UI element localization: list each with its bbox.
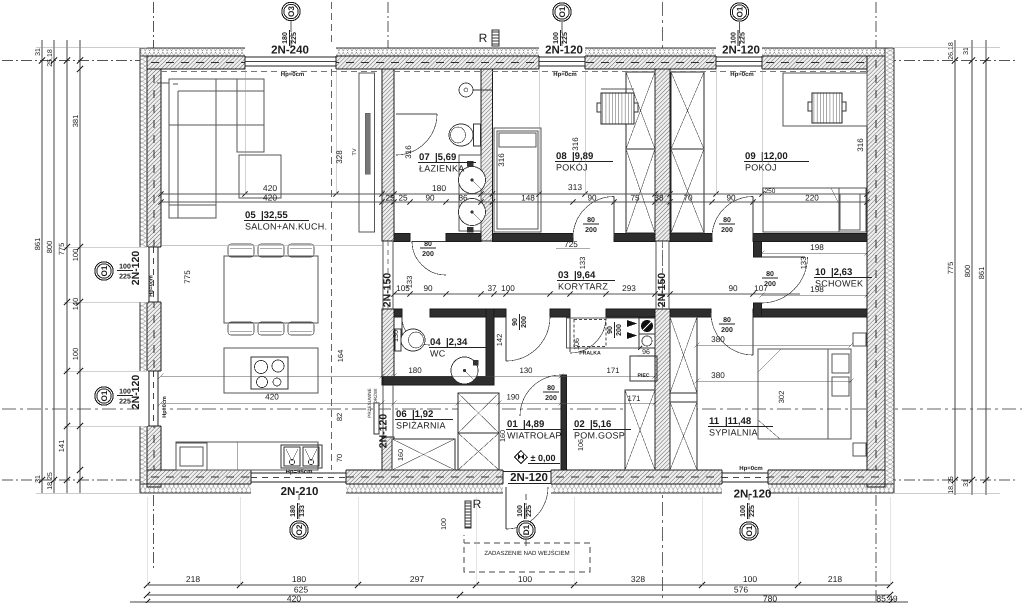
sypialnia dim lines 380 <box>697 344 851 346</box>
corridor bottom wall segment a <box>394 309 402 317</box>
svg-text:316: 316 <box>856 138 865 152</box>
exterior wall top <box>147 56 885 69</box>
opening 2N-150 salon to corridor <box>382 241 384 309</box>
wall wiatrolap pomgosp <box>561 375 567 470</box>
window 2N-120 left lower <box>139 371 162 426</box>
svg-text:293: 293 <box>622 284 636 293</box>
svg-text:31: 31 <box>35 48 42 56</box>
svg-text:297: 297 <box>410 574 424 584</box>
counter pomgosp <box>567 318 656 348</box>
svg-text:171: 171 <box>606 366 619 375</box>
svg-text:02: 02 <box>574 419 585 430</box>
wall wc spizarnia divider <box>383 377 494 386</box>
svg-text:198: 198 <box>810 285 824 294</box>
toilet wc <box>395 329 401 351</box>
svg-text:|12,00: |12,00 <box>761 151 788 162</box>
bottom dim chain row3 <box>130 601 908 603</box>
exterior wall right <box>867 56 885 487</box>
svg-text:100: 100 <box>743 574 757 584</box>
svg-text:100: 100 <box>740 505 747 517</box>
coffee table salon <box>239 155 281 198</box>
door schowek <box>762 257 808 303</box>
svg-text:37: 37 <box>487 284 497 293</box>
window axis O2 vertical bottom <box>298 470 300 520</box>
wall wc east <box>486 309 494 385</box>
svg-text:225: 225 <box>749 505 756 517</box>
door pokoj08 <box>573 197 614 238</box>
svg-text:100: 100 <box>553 32 560 44</box>
svg-text:171: 171 <box>627 394 640 403</box>
svg-text:R: R <box>473 497 482 511</box>
svg-text:31: 31 <box>963 479 970 487</box>
dining chairs top row <box>228 244 254 257</box>
svg-text:|5,16: |5,16 <box>590 419 611 430</box>
svg-text:ŁAZIENKA: ŁAZIENKA <box>419 164 465 174</box>
axis circle O1 top second <box>730 3 748 21</box>
svg-text:10: 10 <box>815 267 826 278</box>
svg-text:08: 08 <box>556 151 567 162</box>
washbasin counter lazienka <box>459 155 481 231</box>
svg-text:ZADASZENIE NAD WEJŚCIEM: ZADASZENIE NAD WEJŚCIEM <box>484 549 569 557</box>
svg-text:133: 133 <box>799 257 808 270</box>
svg-text:|4,89: |4,89 <box>523 419 544 430</box>
insulation strip left <box>140 48 147 493</box>
svg-text:01: 01 <box>507 419 518 430</box>
nightstand sypialnia bottom <box>853 443 866 456</box>
radiator pokoj08 <box>601 93 634 124</box>
svg-text:70: 70 <box>335 454 344 462</box>
bottom dim chain row1 <box>147 584 890 586</box>
svg-text:420: 420 <box>287 594 301 604</box>
svg-text:2N-120: 2N-120 <box>130 375 142 410</box>
svg-text:86: 86 <box>458 194 468 203</box>
corridor bottom wall segment d <box>606 309 655 317</box>
svg-text:2N-120: 2N-120 <box>130 251 142 286</box>
svg-text:180: 180 <box>432 183 446 193</box>
svg-text:775: 775 <box>946 262 955 275</box>
svg-text:218: 218 <box>828 574 842 584</box>
svg-text:302: 302 <box>777 391 786 404</box>
svg-text:2N-120: 2N-120 <box>734 489 772 501</box>
lintel dashed line under top wall <box>161 71 382 73</box>
svg-text:80: 80 <box>547 385 555 392</box>
sliding door opening salon spizarnia 2N-120 <box>382 385 384 437</box>
svg-text:100: 100 <box>71 249 80 262</box>
arrows pomgosp <box>627 320 637 327</box>
svg-text:316: 316 <box>571 137 580 151</box>
svg-text:225: 225 <box>526 505 533 517</box>
svg-text:90: 90 <box>726 194 736 203</box>
entrance door opening D1 <box>503 469 551 494</box>
svg-text:90: 90 <box>607 326 614 334</box>
svg-text:38: 38 <box>654 194 664 203</box>
corridor bottom wall segment b <box>430 309 506 317</box>
svg-text:90: 90 <box>728 284 738 293</box>
svg-text:|32,55: |32,55 <box>261 210 288 221</box>
insulation strip right <box>885 48 894 493</box>
insulation strip bottom <box>140 484 894 493</box>
svg-text:06: 06 <box>396 409 407 420</box>
extension lines left windows to margin <box>64 246 147 248</box>
svg-text:80: 80 <box>424 241 432 248</box>
axis circle O1 top first <box>553 3 571 21</box>
svg-text:|9,89: |9,89 <box>572 151 593 162</box>
svg-text:420: 420 <box>263 193 277 203</box>
exterior wall left <box>147 56 161 487</box>
svg-text:2N-150: 2N-150 <box>382 273 394 308</box>
svg-text:18,25: 18,25 <box>47 472 54 490</box>
door pokoj09 <box>712 197 753 238</box>
svg-text:160: 160 <box>396 449 405 461</box>
svg-text:Hp=95cm: Hp=95cm <box>286 469 313 476</box>
svg-text:31: 31 <box>35 475 42 483</box>
wardrobe wiatrolap <box>458 393 499 433</box>
cooktop <box>251 357 288 389</box>
svg-text:Hp=0cm: Hp=0cm <box>730 71 754 78</box>
svg-text:2N-120: 2N-120 <box>510 472 548 484</box>
svg-text:100: 100 <box>71 348 80 361</box>
svg-text:861: 861 <box>33 238 42 251</box>
axis vertical kitchen divider x332 above plan <box>331 2 333 56</box>
window 2N-120 top first <box>539 46 585 70</box>
door shower lazienka corner <box>396 113 437 115</box>
svg-text:200: 200 <box>585 227 597 234</box>
svg-text:|2,63: |2,63 <box>831 267 852 278</box>
desk pokoj09 <box>783 73 867 126</box>
svg-text:|5,69: |5,69 <box>435 152 456 163</box>
svg-text:Hp=0cm: Hp=0cm <box>281 71 305 78</box>
door wiatrolap to pomgosp <box>520 375 561 416</box>
internal dim chain A y194 <box>161 193 867 195</box>
svg-text:O1: O1 <box>736 6 745 17</box>
bed pokoj09 <box>763 188 866 232</box>
corridor bottom wall segment c <box>550 309 570 317</box>
shaft upper left of chimney <box>626 72 655 149</box>
svg-text:2N-150: 2N-150 <box>656 273 668 308</box>
window 2N-240 top <box>245 46 336 70</box>
sink pomgosp <box>639 318 655 334</box>
svg-text:164: 164 <box>336 350 345 363</box>
svg-text:100: 100 <box>518 574 532 584</box>
svg-text:328: 328 <box>631 574 645 584</box>
dining chairs bottom row <box>228 322 254 335</box>
svg-text:190: 190 <box>506 393 520 402</box>
sliding door panel <box>374 403 379 434</box>
door wiatrolap from corridor <box>506 317 550 361</box>
dining table <box>224 256 318 323</box>
svg-text:775: 775 <box>57 243 66 256</box>
svg-text:90: 90 <box>587 194 597 203</box>
svg-text:133: 133 <box>299 505 306 517</box>
window 2N-210 bottom <box>251 469 346 494</box>
corridor top wall segment c pokoj08 <box>493 234 574 242</box>
svg-text:140: 140 <box>71 298 80 311</box>
wall salon east middle segment <box>382 309 394 385</box>
bottom dim chain row2 <box>147 594 890 596</box>
svg-text:142: 142 <box>495 334 504 347</box>
svg-text:198: 198 <box>810 243 824 252</box>
svg-text:25: 25 <box>385 194 395 203</box>
door wc <box>402 317 430 345</box>
svg-text:R: R <box>479 31 488 45</box>
svg-text:05: 05 <box>245 210 256 221</box>
svg-text:Hp=0cm: Hp=0cm <box>162 396 168 418</box>
svg-text:Hp=0cm: Hp=0cm <box>149 275 155 297</box>
svg-text:800: 800 <box>963 265 972 278</box>
axis circle O3 top <box>282 2 300 20</box>
svg-text:80: 80 <box>723 217 731 224</box>
door pomgosp from corridor <box>570 317 606 353</box>
svg-text:80: 80 <box>766 271 774 278</box>
opening 2N-150 chimney corridor <box>655 241 657 309</box>
toilet lazienka <box>474 124 481 146</box>
svg-text:DRZWI: DRZWI <box>373 388 378 403</box>
svg-text:780: 780 <box>763 594 777 604</box>
svg-text:70: 70 <box>683 194 693 203</box>
axis circle O1 left upper <box>95 262 113 280</box>
entrance door D1 arc <box>506 487 548 529</box>
svg-text:Hp=0cm: Hp=0cm <box>739 465 763 472</box>
corridor top wall segment d <box>614 234 655 242</box>
svg-text:POKÓJ: POKÓJ <box>556 163 588 173</box>
washbasin lazienka 2 <box>459 199 486 226</box>
svg-text:|11,48: |11,48 <box>725 416 752 427</box>
axis vertical salon wall x388 above plan <box>387 2 389 56</box>
svg-text:07: 07 <box>419 152 430 163</box>
svg-text:26,18: 26,18 <box>948 42 955 60</box>
svg-text:90: 90 <box>425 194 435 203</box>
svg-text:725: 725 <box>564 240 578 249</box>
corridor bottom wall segment f schowek south <box>753 309 867 317</box>
svg-text:200: 200 <box>521 316 528 328</box>
window 2N-120 bottom sypialnia <box>722 469 768 494</box>
svg-text:O2: O2 <box>295 524 304 535</box>
extension lines from top windows <box>244 69 246 194</box>
shaft lower sypialnia side <box>670 317 697 393</box>
radiator pokoj09 <box>812 93 842 123</box>
svg-text:180: 180 <box>292 574 306 584</box>
svg-text:SPIŻARNIA: SPIŻARNIA <box>396 421 446 431</box>
exterior wall bottom <box>147 470 885 484</box>
svg-text:O1: O1 <box>745 525 754 536</box>
svg-text:80: 80 <box>723 317 731 324</box>
wall chimney lower <box>655 309 670 470</box>
svg-text:200: 200 <box>764 281 776 288</box>
svg-text:218: 218 <box>186 574 200 584</box>
svg-text:106: 106 <box>572 338 581 350</box>
svg-text:|9,64: |9,64 <box>574 270 596 281</box>
svg-text:POKÓJ: POKÓJ <box>745 163 777 173</box>
corridor top wall segment e pokoj09 <box>670 234 712 242</box>
svg-text:100: 100 <box>731 32 738 44</box>
wall salon east lower segment <box>382 437 394 470</box>
canopy connection lines <box>463 535 465 543</box>
svg-text:85,49: 85,49 <box>876 594 898 604</box>
canopy dashed rectangle entrance <box>464 543 590 572</box>
wall schowek west upper piece <box>754 242 762 258</box>
svg-text:82: 82 <box>335 413 344 421</box>
kitchen sink double <box>281 445 322 468</box>
svg-text:775: 775 <box>183 270 192 284</box>
right margin dim lines <box>954 40 956 495</box>
svg-text:18,25: 18,25 <box>948 476 955 494</box>
svg-text:O1: O1 <box>100 390 109 401</box>
svg-text:2N-120: 2N-120 <box>545 45 583 57</box>
bottom extension lines <box>146 497 148 585</box>
shaft lower pomgosp side <box>625 390 655 470</box>
svg-text:225: 225 <box>740 32 747 44</box>
svg-text:133: 133 <box>578 257 587 270</box>
svg-text:380: 380 <box>711 335 725 344</box>
window 2N-120 top second <box>716 46 762 70</box>
svg-text:KORYTARZ: KORYTARZ <box>558 282 608 292</box>
svg-text:381: 381 <box>71 115 80 128</box>
svg-text:180: 180 <box>408 366 422 375</box>
svg-text:Hp=0cm: Hp=0cm <box>553 71 577 78</box>
axis circle O1 left lower <box>95 387 113 405</box>
svg-text:220: 220 <box>805 194 819 203</box>
axis circle D1 bottom <box>517 521 535 539</box>
svg-text:2N-120: 2N-120 <box>722 45 760 57</box>
svg-text:200: 200 <box>545 395 557 402</box>
svg-text:TV: TV <box>352 148 358 155</box>
svg-text:03: 03 <box>558 270 569 281</box>
corridor dim chain y294 <box>394 293 800 295</box>
svg-text:2N-240: 2N-240 <box>271 45 309 57</box>
svg-text:180: 180 <box>290 505 297 517</box>
wall lazienka east <box>481 69 493 241</box>
svg-text:133: 133 <box>405 276 414 289</box>
washbasin lazienka 1 <box>459 167 486 194</box>
window 2N-120 left upper <box>139 247 162 302</box>
svg-text:O1: O1 <box>100 265 109 276</box>
svg-text:328: 328 <box>335 150 344 164</box>
svg-text:PRALKA: PRALKA <box>579 351 601 357</box>
kitchen counter bottom <box>176 442 318 470</box>
svg-text:SYPIALNIA: SYPIALNIA <box>709 428 758 438</box>
svg-text:75: 75 <box>630 194 640 203</box>
svg-text:100: 100 <box>501 284 515 293</box>
line dining zone <box>161 244 382 246</box>
wall chimney upper <box>655 69 670 241</box>
svg-text:25: 25 <box>398 194 408 203</box>
level marker wiatrolap <box>515 451 528 464</box>
washing machine pralka <box>574 320 606 347</box>
svg-text:90: 90 <box>423 284 433 293</box>
svg-text:|1,92: |1,92 <box>412 409 433 420</box>
door axis D1 vertical bottom <box>525 470 527 521</box>
svg-text:11: 11 <box>709 416 720 427</box>
internal dim chain B y202 <box>161 201 867 203</box>
svg-text:SALON+AN.KUCH.: SALON+AN.KUCH. <box>245 222 327 232</box>
svg-text:130: 130 <box>391 330 400 342</box>
corridor bottom wall segment e <box>670 309 711 317</box>
svg-text:D1: D1 <box>522 524 531 535</box>
window axis O3 vertical <box>290 21 292 69</box>
svg-text:04: 04 <box>430 337 441 348</box>
window axis O1a vertical <box>561 22 563 69</box>
svg-text:313: 313 <box>568 182 582 192</box>
svg-text:± 0,00: ± 0,00 <box>531 453 556 463</box>
window axis O1b vertical <box>739 22 741 69</box>
svg-text:576: 576 <box>734 585 748 595</box>
svg-text:316: 316 <box>497 153 506 167</box>
bed pokoj08 <box>494 128 541 232</box>
washbasin wc <box>451 357 478 384</box>
tv cabinet <box>359 73 375 232</box>
corridor top wall segment b <box>446 234 481 242</box>
insulation strip top <box>140 48 894 56</box>
section axis line horizontal bottom y480 <box>2 479 147 481</box>
section axis line horizontal middle y409 <box>2 408 1022 410</box>
svg-text:2N-210: 2N-210 <box>281 486 319 498</box>
axis vertical left wall x153 <box>153 2 155 48</box>
nightstand sypialnia top <box>853 333 866 346</box>
svg-text:WC: WC <box>430 349 446 359</box>
svg-text:200: 200 <box>721 327 733 334</box>
svg-text:90: 90 <box>512 318 519 326</box>
section axis line horizontal top <box>2 60 147 62</box>
door lazienka <box>412 241 446 275</box>
svg-text:100: 100 <box>517 505 524 517</box>
svg-text:180: 180 <box>282 32 289 44</box>
furnace piec <box>630 356 657 381</box>
svg-text:POM.GOSP.: POM.GOSP. <box>574 431 627 441</box>
axis vertical right wall x876 <box>875 2 877 48</box>
shaft upper right of chimney <box>671 72 704 149</box>
svg-text:148: 148 <box>521 194 535 203</box>
svg-text:130: 130 <box>519 366 533 375</box>
left margin dim lines <box>41 40 43 493</box>
shelf spizarnia <box>392 439 455 470</box>
kitchen island <box>224 348 318 393</box>
svg-text:380: 380 <box>711 371 725 380</box>
svg-text:225: 225 <box>291 32 298 44</box>
svg-text:09: 09 <box>745 151 756 162</box>
svg-text:420: 420 <box>265 393 279 402</box>
dim line y376 <box>161 375 655 377</box>
dim line y403 <box>161 402 655 404</box>
svg-text:96: 96 <box>642 349 650 356</box>
svg-text:200: 200 <box>616 324 623 336</box>
bed sypialnia <box>758 349 851 439</box>
oven cabinet <box>176 443 207 470</box>
svg-text:106: 106 <box>576 439 585 451</box>
svg-text:PRZESUWNE: PRZESUWNE <box>367 388 372 417</box>
sofa corner salon <box>169 79 264 125</box>
svg-text:200: 200 <box>422 251 434 258</box>
svg-text:O1: O1 <box>558 6 567 17</box>
wall schowek west lower piece <box>754 303 762 317</box>
svg-text:861: 861 <box>977 267 986 280</box>
door sypialnia <box>711 313 753 355</box>
axis circle O1 bottom <box>740 522 758 540</box>
svg-text:141: 141 <box>57 440 66 453</box>
schowek dims 198 <box>762 252 867 254</box>
wall salon east upper segment <box>382 69 394 241</box>
svg-text:316: 316 <box>404 145 413 159</box>
svg-text:200: 200 <box>721 227 733 234</box>
kitchen divider dashed line <box>331 69 333 470</box>
svg-text:31: 31 <box>963 47 970 55</box>
ceiling lamp lazienka <box>459 83 473 97</box>
svg-text:800: 800 <box>45 241 54 254</box>
corridor top wall segment a <box>394 234 410 242</box>
axis circle O2 bottom <box>290 521 308 539</box>
corridor top wall segment f schowek north <box>753 234 867 242</box>
svg-text:420: 420 <box>263 183 277 193</box>
axis vertical chimney x662 full height <box>662 2 664 601</box>
